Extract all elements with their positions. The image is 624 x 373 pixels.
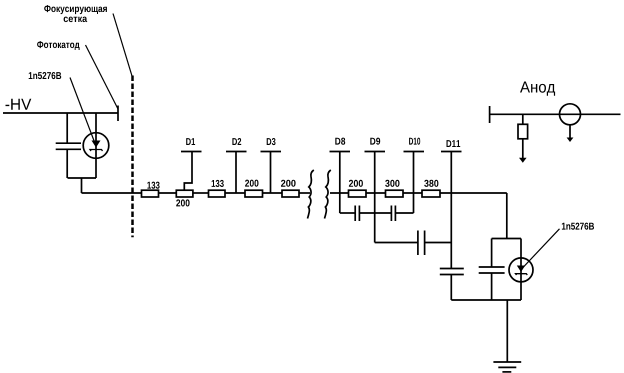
label "Фотокатод" [37, 41, 80, 50]
dynode D2 terminal [232, 138, 241, 145]
wire [299, 192, 310, 194]
resistor R5 200 [282, 190, 299, 197]
dynode D8 terminal [335, 138, 345, 145]
wire to corner [440, 192, 507, 194]
wire: chain start [82, 192, 142, 194]
dynode D10 terminal [409, 138, 420, 145]
resistor R2 200 [176, 190, 193, 197]
resistor R1 133 [142, 190, 159, 197]
rail1 wire (D8-D10) [340, 212, 355, 214]
capacitor C out (left branch of block) [491, 239, 493, 268]
capacitor on rail1 (left) [354, 206, 356, 222]
ground wire [506, 300, 508, 362]
capacitor on rail1 (right) [390, 206, 392, 222]
ground arrow under load resistor [519, 158, 527, 163]
ground arrow under connector [567, 138, 574, 143]
label "Анод" [520, 82, 555, 96]
resistor R8 380 [422, 190, 440, 197]
capacitor on rail2 [417, 231, 419, 256]
wire corner down [506, 193, 508, 239]
photocathode terminal tick [117, 106, 119, 122]
zener diode VD2 (right branch of block) [520, 239, 522, 301]
leader line to focusing grid [113, 14, 132, 77]
focusing grid dashed line [131, 76, 134, 238]
break squiggle right [325, 170, 331, 219]
rail2 wire (D9-D11) [375, 242, 418, 244]
dynode D9 terminal [370, 138, 380, 145]
wire [330, 192, 349, 194]
resistor R4 200 [245, 190, 263, 197]
label "1n5276B" (left zener) [29, 72, 62, 79]
wire [403, 192, 422, 194]
label "-HV" [6, 99, 32, 110]
wire [193, 192, 209, 194]
leader line to left zener [70, 78, 95, 143]
wire below connector [569, 125, 571, 138]
resistor R3 133 [209, 190, 226, 197]
wire [159, 192, 177, 194]
leader line to right zener [523, 229, 560, 268]
ground symbol [493, 361, 521, 363]
dynode D11 terminal [447, 140, 461, 147]
anode terminal tick [489, 106, 491, 123]
anode wire [490, 113, 621, 115]
label "1n5276B" (right zener) [562, 223, 594, 230]
label "Фокусирующая сетка" [44, 5, 107, 22]
leader line to photocathode terminal [86, 45, 119, 109]
wire [225, 192, 245, 194]
capacitor C1 (left branch) [66, 113, 68, 143]
resistor R6 200 [349, 190, 367, 197]
dynode D1 terminal [186, 138, 195, 145]
output RC block: top edge [492, 238, 521, 240]
load resistor (vertical) [522, 114, 524, 124]
resistor R7 300 [386, 190, 404, 197]
wire: drop to divider chain [81, 178, 83, 193]
output connector circle [560, 104, 581, 125]
capacitor on D11 branch [440, 268, 464, 270]
dynode D3 terminal [267, 138, 276, 145]
break squiggle left [308, 170, 314, 219]
wire [263, 192, 283, 194]
zener diode VD1 (circle) [95, 113, 97, 178]
bottom rail wire [451, 299, 521, 301]
wire -HV bus [3, 112, 118, 114]
wire: bottom rail of parallel pair [68, 177, 97, 179]
wire [366, 192, 386, 194]
